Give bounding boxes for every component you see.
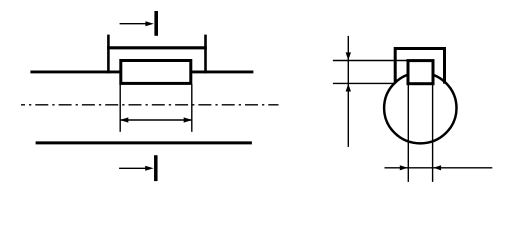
key width right arrowhead bbox=[433, 165, 441, 170]
key length right arrowhead bbox=[184, 117, 193, 122]
key cross-section square bbox=[408, 61, 433, 84]
hub left vertical line bbox=[107, 35, 110, 74]
top leader arrowhead bbox=[145, 21, 153, 26]
hub top edge line bbox=[107, 46, 207, 49]
key top extension line bbox=[333, 60, 408, 62]
hub right vertical line bbox=[204, 35, 207, 74]
key length left extension line bbox=[119, 84, 121, 132]
shaft bottom line bbox=[36, 141, 252, 144]
depth dimension vertical line bbox=[347, 36, 349, 147]
bottom leader arrow shaft bbox=[119, 167, 147, 169]
centerline (dash-dot axis) bbox=[21, 104, 279, 106]
key width left extension line bbox=[407, 85, 409, 182]
top leader arrow shaft bbox=[120, 23, 148, 25]
keyway bottom extension line bbox=[333, 82, 396, 84]
key length dimension line bbox=[120, 119, 192, 121]
key length right extension line bbox=[191, 84, 193, 132]
key length left arrowhead bbox=[120, 117, 129, 122]
top tick bar bbox=[154, 11, 158, 36]
shaft top line right segment bbox=[192, 70, 253, 73]
key width dimension line bbox=[385, 167, 493, 169]
hub keyway groove outline bbox=[395, 49, 444, 84]
key side-view rectangle bbox=[121, 61, 191, 84]
depth dimension up arrowhead bbox=[346, 84, 351, 92]
key width right extension line bbox=[432, 85, 434, 182]
bottom tick bar bbox=[154, 155, 158, 181]
shaft top line left segment bbox=[30, 70, 121, 73]
shaft cross-section circle bbox=[384, 73, 456, 144]
key width left arrowhead bbox=[400, 165, 408, 170]
bottom leader arrowhead bbox=[145, 166, 153, 171]
depth dimension down arrowhead bbox=[346, 52, 351, 60]
